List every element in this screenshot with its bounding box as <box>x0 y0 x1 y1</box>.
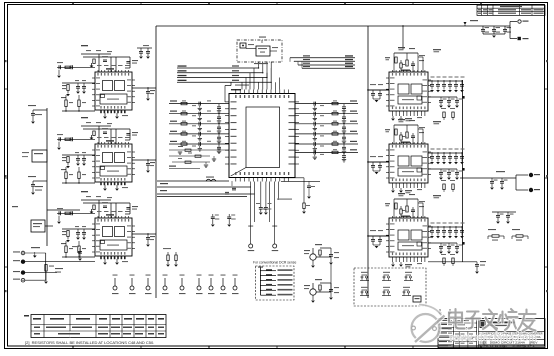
svg-text:www.elecfans.com: www.elecfans.com <box>448 332 537 344</box>
svg-text:[2] RESISTORS SHALL BE INSTAL: [2] RESISTORS SHALL BE INSTALLED AT LOCA… <box>25 340 154 345</box>
svg-text:DATE: 10-21-2016 SHEET 1: DATE: 10-21-2016 SHEET 1 OF 1 <box>480 345 536 348</box>
svg-text:For conventional DCR sense: For conventional DCR sense <box>253 261 296 265</box>
